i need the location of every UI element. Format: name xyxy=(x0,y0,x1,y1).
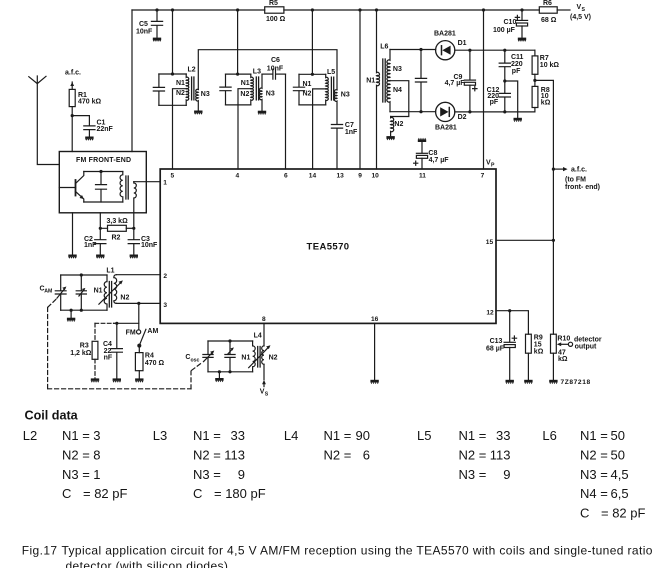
node coil data column L6 xyxy=(542,428,645,520)
svg-text:10nF: 10nF xyxy=(267,65,284,72)
L1 variable inductor arrow xyxy=(99,282,121,304)
svg-text:N1: N1 xyxy=(94,287,103,294)
capacitor C3 xyxy=(128,228,158,254)
L6 winding N2 xyxy=(391,117,394,136)
wire L2 tank top edge xyxy=(159,73,186,75)
svg-text:3: 3 xyxy=(163,302,167,309)
svg-text:pF: pF xyxy=(490,99,499,106)
svg-text:12: 12 xyxy=(486,309,494,316)
wire L4 tank top edge xyxy=(208,340,253,342)
ground below L3 N3 xyxy=(258,111,266,115)
svg-text:N1 =: N1 = xyxy=(459,428,487,443)
svg-text:9: 9 xyxy=(238,467,245,482)
ground below C1 xyxy=(85,137,93,141)
wire a.f.c. feedback from R7/R8 junction xyxy=(535,80,554,334)
svg-text:2: 2 xyxy=(163,273,167,280)
svg-text:C13: C13 xyxy=(490,338,503,345)
wire FM front-end emitter rail xyxy=(84,201,123,203)
svg-text:L5: L5 xyxy=(327,69,335,76)
resistor R6 xyxy=(539,0,557,24)
L4 variable inductor arrow xyxy=(249,347,269,368)
svg-text:R5: R5 xyxy=(269,0,278,7)
svg-text:6,5: 6,5 xyxy=(611,486,629,501)
svg-text:front- end): front- end) xyxy=(565,184,600,191)
svg-text:90: 90 xyxy=(356,428,370,443)
svg-text:C: C xyxy=(62,486,71,501)
svg-text:D1: D1 xyxy=(458,40,467,47)
svg-text:P: P xyxy=(491,162,495,168)
svg-text:(4,5 V): (4,5 V) xyxy=(570,14,591,21)
svg-text:N1 =: N1 = xyxy=(193,428,221,443)
potentiometer R10 xyxy=(551,334,602,379)
FM FRONT-END box U2 xyxy=(59,152,146,213)
svg-text:N3: N3 xyxy=(393,66,402,73)
resistor R4 xyxy=(135,346,164,378)
wire L3 tank top edge xyxy=(226,73,251,75)
resistor R3 xyxy=(70,323,98,378)
node VS supply terminal xyxy=(570,4,591,21)
L5 core xyxy=(331,77,333,100)
node a.f.c. terminal top-left xyxy=(65,70,81,90)
svg-text:N1: N1 xyxy=(241,80,250,87)
svg-text:9: 9 xyxy=(503,467,510,482)
svg-text:N3: N3 xyxy=(266,91,275,98)
wire C11/C12 junction to ground xyxy=(505,81,518,118)
svg-text:L5: L5 xyxy=(417,428,431,443)
L3 winding N1 xyxy=(251,74,254,89)
ground below C3 xyxy=(130,255,138,259)
svg-text:N1 =: N1 = xyxy=(62,428,90,443)
svg-text:N2: N2 xyxy=(176,90,185,97)
trimmer capacitor in L4 tank xyxy=(229,341,231,354)
svg-text:N1 =: N1 = xyxy=(580,428,608,443)
svg-text:AM: AM xyxy=(147,328,158,335)
L1 core xyxy=(109,282,111,308)
svg-text:C5: C5 xyxy=(139,21,148,28)
ground below L2 N3 xyxy=(194,111,202,115)
svg-text:D2: D2 xyxy=(458,114,467,121)
svg-text:N2 =: N2 = xyxy=(193,448,221,463)
resistor R5 xyxy=(265,0,286,23)
svg-text:50: 50 xyxy=(611,428,625,443)
svg-text:kΩ: kΩ xyxy=(558,356,568,363)
transformer secondary inside FM front-end xyxy=(134,182,137,229)
svg-text:5: 5 xyxy=(171,172,175,179)
diode D2 BA281 xyxy=(435,102,467,131)
node VP label xyxy=(486,160,495,169)
variable capacitor CAM xyxy=(60,275,62,291)
svg-text:N1 =: N1 = xyxy=(324,428,352,443)
node coil data column L4 xyxy=(284,428,370,462)
L1 winding N1 xyxy=(104,275,107,310)
svg-text:13: 13 xyxy=(337,172,345,179)
svg-text:AM: AM xyxy=(44,289,52,295)
svg-text:11: 11 xyxy=(419,172,426,179)
wire D1 output xyxy=(455,49,535,51)
ground below C5 xyxy=(153,38,161,42)
svg-text:N2: N2 xyxy=(240,91,249,98)
ground below R10 xyxy=(549,380,557,384)
svg-text:1nF: 1nF xyxy=(84,242,97,249)
svg-text:100 µF: 100 µF xyxy=(493,27,516,34)
ground below C2 xyxy=(96,255,104,259)
resistor R7 xyxy=(532,50,559,80)
svg-text:14: 14 xyxy=(309,172,317,179)
L3 winding N3 xyxy=(259,74,262,110)
capacitor C11 xyxy=(499,49,523,83)
node VS feed to L4 N2 xyxy=(260,364,269,397)
svg-text:R2: R2 xyxy=(112,234,121,241)
node coil data column L2 xyxy=(23,428,128,501)
ground below L1 tank xyxy=(67,318,75,322)
wire top supply rail left segment xyxy=(132,9,265,11)
svg-text:10nF: 10nF xyxy=(136,29,153,36)
wire L6 centre tap to N2 xyxy=(390,81,409,117)
node L4 tank ground stub xyxy=(218,370,221,373)
svg-text:113: 113 xyxy=(224,448,245,463)
svg-text:TEA5570: TEA5570 xyxy=(307,242,350,253)
L4 core xyxy=(258,347,260,368)
svg-text:N2: N2 xyxy=(394,121,403,128)
wire FM front-end collector rail xyxy=(84,171,123,173)
wire L3 tank bottom edge xyxy=(226,104,251,106)
svg-text:10: 10 xyxy=(372,172,380,179)
svg-text:N2 =: N2 = xyxy=(459,448,487,463)
ground below C11/C12 junction xyxy=(514,118,522,122)
wire L5 tap to pin 14 xyxy=(313,89,327,169)
svg-text:a.f.c.: a.f.c. xyxy=(571,167,587,174)
coil L5 tuned circuit xyxy=(293,10,349,169)
junction dots on top rail xyxy=(155,8,523,11)
svg-text:4: 4 xyxy=(236,172,240,179)
wire pin 8 to L4 N2 xyxy=(263,323,265,346)
ground below FM front-end xyxy=(68,255,76,259)
svg-text:7: 7 xyxy=(481,172,485,179)
wire supply drop to L5 xyxy=(311,10,313,74)
svg-text:Typical application circuit fo: Typical application circuit for 4,5 V AM… xyxy=(62,544,653,558)
svg-text:N3: N3 xyxy=(201,91,210,98)
capacitor C7 xyxy=(331,122,358,169)
ground below L4 tank xyxy=(215,378,223,382)
svg-text:Coil data: Coil data xyxy=(25,409,79,423)
svg-text:N2: N2 xyxy=(120,295,129,302)
resistor R9 xyxy=(526,334,544,379)
wire L4 tank bottom edge xyxy=(208,371,253,373)
L5 winding N3 xyxy=(334,90,337,125)
svg-text:50: 50 xyxy=(611,448,625,463)
svg-text:N4 =: N4 = xyxy=(580,486,608,501)
svg-text:C: C xyxy=(580,505,589,520)
svg-text:9: 9 xyxy=(358,172,362,179)
capacitor inside FM front-end xyxy=(96,172,107,203)
svg-text:BA281: BA281 xyxy=(434,30,456,37)
ground below R3 xyxy=(91,378,99,382)
svg-text:N3 =: N3 = xyxy=(580,467,608,482)
svg-text:N1: N1 xyxy=(303,81,312,88)
wire L2 tank bottom edge xyxy=(159,104,186,106)
L4 winding N1 xyxy=(253,341,256,372)
op-amp U1 TEA5570 IC xyxy=(160,169,496,323)
wire secondary rail linking L2 N3 and L5 N3 xyxy=(198,50,337,90)
svg-text:33: 33 xyxy=(231,428,245,443)
capacitor C6 xyxy=(262,57,286,79)
svg-text:FM FRONT-END: FM FRONT-END xyxy=(76,157,131,164)
L6 winding N3 xyxy=(387,50,390,81)
svg-text:470 kΩ: 470 kΩ xyxy=(78,98,102,105)
svg-text:33: 33 xyxy=(496,428,510,443)
svg-text:1nF: 1nF xyxy=(345,129,358,136)
svg-text:C: C xyxy=(193,486,202,501)
capacitor across L6 secondary xyxy=(415,48,426,113)
node junction R1/C1 xyxy=(71,114,74,117)
capacitor C4 xyxy=(103,323,122,378)
L6 winding N1 on supply to pin 10 xyxy=(377,10,380,169)
capacitor C10 xyxy=(493,10,528,37)
switch S1 FM/AM xyxy=(126,328,159,348)
capacitor C8 xyxy=(414,142,450,169)
wire pin 16 to ground xyxy=(374,323,376,379)
node a.f.c. output to FM front-end xyxy=(552,167,600,192)
svg-text:BA281: BA281 xyxy=(435,124,457,131)
resistor R1 xyxy=(69,89,101,151)
coil L2 tuned circuit xyxy=(153,10,210,169)
svg-text:R9: R9 xyxy=(534,334,543,341)
resistor R2 xyxy=(100,213,134,242)
transformer primary inside FM front-end xyxy=(120,172,123,203)
wire supply drop to L3 xyxy=(237,10,239,74)
wire supply to pin 7 VP xyxy=(483,10,485,169)
svg-text:8: 8 xyxy=(93,448,100,463)
variable capacitor Cosc xyxy=(207,341,209,354)
svg-text:kΩ: kΩ xyxy=(534,348,544,355)
svg-text:(to FM: (to FM xyxy=(565,177,586,184)
wire L2 tap to pin 5 xyxy=(173,89,188,169)
resistor R8 xyxy=(532,80,551,112)
antenna xyxy=(29,76,60,165)
svg-text:nF: nF xyxy=(104,354,113,361)
svg-text:1: 1 xyxy=(163,180,167,187)
svg-text:4,7 µF: 4,7 µF xyxy=(445,80,466,87)
svg-text:pF: pF xyxy=(512,68,521,75)
svg-text:22nF: 22nF xyxy=(97,126,114,133)
L2 core xyxy=(192,77,194,100)
wire C4 node to switch column xyxy=(114,322,139,324)
svg-text:4,7 µF: 4,7 µF xyxy=(429,157,450,164)
svg-text:10 kΩ: 10 kΩ xyxy=(540,62,560,69)
wire pin 12 output xyxy=(496,311,528,335)
svg-text:N1: N1 xyxy=(366,78,375,85)
wire pin3 node down to switch xyxy=(138,303,140,329)
svg-text:N1: N1 xyxy=(241,354,250,361)
diode D1 BA281 xyxy=(434,30,467,60)
svg-text:L6: L6 xyxy=(380,44,388,51)
L5 winding N1 xyxy=(326,74,329,89)
svg-text:16: 16 xyxy=(371,316,379,323)
svg-text:R4: R4 xyxy=(145,353,154,360)
L6 winding N4 xyxy=(387,81,390,112)
ground below R4 xyxy=(135,378,143,382)
svg-text:113: 113 xyxy=(490,448,511,463)
svg-text:N2 =: N2 = xyxy=(62,448,90,463)
wire supply to pin 9 xyxy=(359,10,361,169)
wire top supply rail mid segment xyxy=(284,9,539,11)
node coil data column L5 xyxy=(417,428,511,482)
svg-text:C10: C10 xyxy=(504,19,517,26)
node coil data column L3 xyxy=(153,428,266,501)
svg-text:L3: L3 xyxy=(153,428,167,443)
ground below R9 xyxy=(524,380,532,384)
svg-text:N4: N4 xyxy=(393,87,402,94)
svg-text:3: 3 xyxy=(93,428,100,443)
svg-text:FM: FM xyxy=(126,329,136,336)
capacitor C13 xyxy=(486,311,517,380)
svg-text:= 82 pF: = 82 pF xyxy=(83,486,128,501)
svg-text:N2: N2 xyxy=(269,354,278,361)
wire L1 N2 bottom to pin 3 xyxy=(116,302,160,304)
transistor Q1 inside FM front-end xyxy=(59,172,84,203)
capacitor C5 xyxy=(136,10,163,37)
coil L3 tuned circuit xyxy=(220,10,275,169)
svg-text:N3 =: N3 = xyxy=(459,467,487,482)
svg-text:15: 15 xyxy=(486,239,494,246)
wire L3 tap to pin 4 xyxy=(238,89,252,169)
svg-text:detector (with silicon diodes): detector (with silicon diodes) xyxy=(66,559,229,568)
wire L1 tank top edge xyxy=(61,274,107,276)
coil L4 oscillator tuned circuit xyxy=(185,333,277,378)
capacitor C1 xyxy=(72,116,113,137)
svg-text:R3: R3 xyxy=(80,343,89,350)
wire top supply rail right segment xyxy=(557,9,570,11)
svg-text:a.f.c.: a.f.c. xyxy=(65,70,81,77)
svg-text:L4: L4 xyxy=(254,333,262,340)
svg-text:L4: L4 xyxy=(284,428,298,443)
svg-text:Fig.17: Fig.17 xyxy=(22,544,58,558)
L3 core xyxy=(256,77,258,100)
wire pin 15 to a.f.c. line xyxy=(496,239,553,241)
wire dashed R3 link xyxy=(95,322,114,324)
svg-text:15: 15 xyxy=(534,341,542,348)
transformer core inside FM front-end xyxy=(126,176,128,199)
coil L6 ratio detector transformer xyxy=(366,10,435,169)
wire L1 N2 top to pin 2 xyxy=(116,274,160,276)
svg-text:S: S xyxy=(582,7,586,13)
wire D2 output xyxy=(455,111,535,113)
wire L5 tank top edge xyxy=(299,73,326,75)
wire L6 secondary top edge xyxy=(390,49,436,51)
svg-text:L1: L1 xyxy=(106,268,114,275)
ground below C13 xyxy=(506,380,514,384)
svg-text:6: 6 xyxy=(363,448,370,463)
svg-text:L6: L6 xyxy=(542,428,556,443)
svg-text:3,3 kΩ: 3,3 kΩ xyxy=(107,218,129,225)
svg-text:N2: N2 xyxy=(303,91,312,98)
L6 core xyxy=(383,59,385,102)
svg-text:kΩ: kΩ xyxy=(541,99,551,106)
coil L1 AM tuned circuit xyxy=(40,268,130,318)
L5 winding N2 xyxy=(326,89,329,105)
ground below C4 xyxy=(113,378,121,382)
svg-text:4,5: 4,5 xyxy=(611,467,629,482)
wire L1 tank bottom edge xyxy=(61,309,107,311)
ground below pin 16 xyxy=(370,380,378,384)
svg-text:1: 1 xyxy=(93,467,100,482)
svg-text:10nF: 10nF xyxy=(141,242,158,249)
svg-text:N3 =: N3 = xyxy=(62,467,90,482)
svg-text:N2 =: N2 = xyxy=(324,448,352,463)
svg-text:R10: R10 xyxy=(557,335,570,342)
L2 winding N3 xyxy=(196,89,199,110)
node figure caption xyxy=(22,544,653,568)
svg-text:1,2 kΩ: 1,2 kΩ xyxy=(70,350,92,357)
wire pin 1 from FM front-end xyxy=(134,181,160,183)
svg-text:N3 =: N3 = xyxy=(193,467,221,482)
trimmer capacitor in L1 tank xyxy=(80,275,82,291)
ground below L6 N2 xyxy=(386,136,394,140)
capacitor C9 xyxy=(445,49,477,114)
svg-text:470 Ω: 470 Ω xyxy=(145,360,165,367)
svg-text:68 µF: 68 µF xyxy=(486,345,505,352)
svg-text:7Z87218: 7Z87218 xyxy=(561,379,591,386)
L3 winding N2 xyxy=(251,89,254,105)
wire FM front-end bottom-left to ground xyxy=(72,213,74,254)
svg-text:C6: C6 xyxy=(271,57,280,64)
svg-text:100 Ω: 100 Ω xyxy=(266,16,286,23)
svg-text:L2: L2 xyxy=(23,428,37,443)
svg-text:N1: N1 xyxy=(176,80,185,87)
svg-text:S: S xyxy=(265,391,269,397)
svg-text:= 180 pF: = 180 pF xyxy=(214,486,266,501)
svg-text:C11: C11 xyxy=(511,54,524,61)
svg-text:68 Ω: 68 Ω xyxy=(541,17,557,24)
L2 winding N2 xyxy=(186,89,189,106)
inverted ground above C8 xyxy=(418,138,426,142)
L4 winding N2 xyxy=(262,346,264,364)
svg-text:R6: R6 xyxy=(543,0,552,7)
node L1 tank ground stub xyxy=(70,309,73,312)
svg-text:8: 8 xyxy=(262,316,266,323)
svg-text:6: 6 xyxy=(284,172,288,179)
capacitor in L2 tank xyxy=(158,74,160,87)
L2 winding N1 xyxy=(186,74,189,89)
capacitor in L5 tank xyxy=(298,74,300,87)
svg-text:osc: osc xyxy=(191,357,200,363)
wire supply drop to L2 xyxy=(172,10,174,74)
svg-text:N2 =: N2 = xyxy=(580,448,608,463)
wire L6 secondary bottom edge xyxy=(390,111,436,113)
svg-text:N3: N3 xyxy=(341,91,350,98)
wire L5 tank bottom edge xyxy=(299,104,326,106)
capacitor C12 xyxy=(487,81,511,114)
capacitor in L3 tank xyxy=(225,74,227,87)
svg-text:L3: L3 xyxy=(253,69,261,76)
capacitor C2 xyxy=(84,228,106,254)
svg-text:output: output xyxy=(575,343,597,350)
svg-text:L2: L2 xyxy=(188,66,196,73)
wire C6 to pin 6 xyxy=(285,74,287,169)
svg-text:= 82 pF: = 82 pF xyxy=(601,505,646,520)
L1 winding N2 xyxy=(114,275,117,304)
ground below C10 xyxy=(518,38,526,42)
wire supply drop to FM front-end xyxy=(131,10,133,152)
wire gang line dashed from CAM to Cosc xyxy=(48,300,203,389)
